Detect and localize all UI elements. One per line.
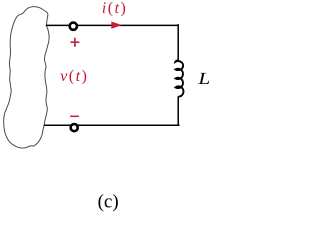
plus sign [71, 38, 80, 47]
inductor L coil [175, 60, 183, 96]
source network blob [4, 7, 49, 148]
minus sign [70, 115, 79, 117]
wire bottom horizontal [44, 124, 180, 126]
terminal bottom (open circle) [71, 124, 78, 131]
terminal top (open circle) [70, 23, 77, 30]
wire right vertical upper [177, 24, 179, 60]
wire top horizontal [46, 24, 179, 26]
wire right vertical lower [177, 96, 179, 125]
caption (c) [98, 194, 117, 211]
label v(t) [60, 70, 86, 85]
label L [198, 73, 209, 84]
label i(t) [103, 2, 125, 17]
current arrow [111, 22, 122, 29]
